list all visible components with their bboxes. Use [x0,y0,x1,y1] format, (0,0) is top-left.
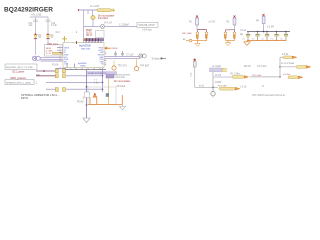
wire OTG [46,88,103,90]
connector JP1 current-limit box [85,87,123,105]
wire SYS bus [247,31,290,33]
capacitor C7 [121,51,134,57]
svg-text:BQ24292I_GPIO_CTL(7M): BQ24292I_GPIO_CTL(7M) [6,67,33,69]
svg-text:D- GND: D- GND [46,50,53,52]
wire C11 branch [35,17,37,34]
wire row A [280,66,300,68]
resistor R18 arrow out [296,66,311,69]
svg-text:21: 21 [105,64,107,66]
svg-text:thermistor: thermistor [98,17,108,20]
node pin numbers top of U1 [86,30,93,37]
svg-text:2: 2 [60,49,61,51]
wire row C [195,86,218,88]
wire usb vbus lines [57,48,63,53]
svg-text:L1 2.2uH: L1 2.2uH [90,6,100,8]
svg-text:Do not populate: Do not populate [114,80,131,83]
connector J2 battery [139,54,146,58]
capacitor C6 [114,51,117,57]
node port box GPIO [5,80,34,85]
svg-text:4.7uF: 4.7uF [51,25,57,27]
resistor R19 arrow out [288,76,303,79]
node pin numbers bottom of U1 [70,69,101,71]
wire SCL [36,70,55,72]
node TS net label [210,65,227,72]
svg-text:J4 1-2A: J4 1-2A [104,21,112,24]
wire PMID horizontal [84,26,138,28]
capacitor Cout 248 [241,32,250,41]
svg-text:C7 1uF: C7 1uF [126,54,134,56]
resistor R16 TS pullup [193,59,196,88]
node PGND net text [87,71,117,74]
svg-text:RGE R24: RGE R24 [81,47,91,50]
resistor R13 STAT pullup [189,16,198,30]
capacitor Cout 288 [279,32,288,41]
svg-text:REGN: REGN [112,48,118,50]
node jumper JP2 [106,75,130,79]
wire SDA [36,75,55,77]
capacitor C5 box [96,31,105,38]
svg-text:R6 0R: R6 0R [244,66,251,68]
wire GND vertical [86,70,88,118]
wire TS vertical [212,72,214,87]
svg-text:+ t: + t [94,79,97,82]
svg-text:10u: 10u [261,38,264,40]
svg-text:5V: 5V [51,37,54,39]
wire D2 to J1 [47,39,49,45]
wire INT [46,81,103,83]
svg-text:on tx w tssss: on tx w tssss [281,62,295,65]
svg-text:a 3.3R: a 3.3R [267,27,274,29]
capacitor C8 DNP branch [108,78,110,105]
svg-text:us chgflt: us chgflt [212,65,221,68]
svg-text:17: 17 [105,53,107,55]
resistor R17 [231,74,249,79]
svg-text:18: 18 [105,48,107,50]
capacitor Cout 258 [251,32,260,41]
wire BAT lines [104,57,140,59]
svg-text:a 3.3V: a 3.3V [209,22,216,24]
resistor network R7-R12 pullups [52,64,74,92]
svg-text:OTG: OTG [64,64,69,66]
svg-text:R.: R. [262,86,265,88]
svg-text:a 5.2k: a 5.2k [282,54,289,56]
svg-text:VB 17: VB 17 [86,35,93,37]
wire SW vertical [83,10,85,43]
svg-text:R 10k: R 10k [52,64,59,66]
svg-text:PGND: PGND [77,101,84,103]
op-amp U1 bq24292i main IC [63,43,104,68]
svg-text:3: 3 [60,51,61,53]
svg-text:INP IN: INP IN [21,97,28,100]
svg-text:chgflt: chgflt [190,72,193,77]
wire SDA right [66,75,103,77]
thermistor RT1 [91,10,95,27]
svg-text:ts 0.4uF: ts 0.4uF [283,73,291,76]
svg-text:20: 20 [105,60,107,62]
wire VBUS top rail [30,16,48,18]
svg-text:→ To Battery: → To Battery [149,57,163,60]
resistor R4 SYS feed [262,14,274,32]
inductor L1 [78,6,115,12]
svg-text:LED_RED: LED_RED [182,33,193,35]
ground GND1 [83,118,90,123]
svg-text:1-2A max: 1-2A max [142,29,153,32]
node pin numbers left [60,46,61,62]
svg-text:BQ24292IRGER: BQ24292IRGER [4,6,53,13]
node battery arrow [161,57,167,59]
svg-text:bq24292i: bq24292i [79,44,91,48]
svg-text:C 2200pF: C 2200pF [119,24,130,26]
capacitor C11 [29,20,39,27]
svg-text:TP4 BAT: TP4 BAT [140,64,150,67]
wire top pin stubs [85,38,105,41]
resistor R21 top jumper [280,54,297,59]
svg-text:SPRACM_GPIO_1.2(4M): SPRACM_GPIO_1.2(4M) [6,81,31,84]
svg-text:JUMP: JUMP [215,82,222,84]
svg-text:10u: 10u [242,38,245,40]
diode D1 TVS [34,33,42,39]
wire GPIO bus vertical [102,68,104,92]
svg-text:NTC 103AT thermistor plcmnt 2x: NTC 103AT thermistor plcmnt 2x [252,94,286,97]
connector J4 [100,21,112,28]
svg-text:10u: 10u [280,38,283,40]
wire PGND bottom rail [63,69,106,71]
LED D4 circuit [224,30,243,46]
wire D1 to connector [35,39,37,55]
capacitor C12 [46,20,58,27]
wire stub [87,10,89,14]
connector P1 plug symbol [32,56,40,60]
svg-text:10u: 10u [252,38,255,40]
svg-text:I2C1_power: I2C1_power [12,71,25,74]
resistor R20 arrow out [218,86,240,91]
svg-text:C9 0.1uF: C9 0.1uF [116,77,126,79]
svg-text:TS1 0.4uF: TS1 0.4uF [252,75,262,77]
svg-text:5V: 5V [39,37,42,39]
capacitor Cout 278 [270,32,279,41]
connector J1 USB input box [45,43,63,56]
svg-text:D+ ID: D+ ID [46,53,52,55]
wire SYS gnd rail [247,40,286,42]
wire TS row B [213,76,232,78]
node net label 5V0_USB [137,22,158,31]
svg-text:Do not populate: Do not populate [98,14,115,17]
svg-text:C13: C13 [56,32,61,34]
svg-text:C8 10uF: C8 10uF [117,86,126,88]
capacitor Cout 268 [260,32,269,41]
svg-text:x 0.1k: x 0.1k [240,87,247,89]
svg-text:5V0USB_DPDT: 5V0USB_DPDT [139,25,156,27]
capacitor C13 polarized [56,32,68,44]
ground GND2 [120,105,126,110]
svg-text:10u: 10u [271,38,274,40]
node port box I2C1 [5,64,37,69]
svg-text:C1 0.4uF: C1 0.4uF [257,66,267,68]
svg-text:bq24292i: bq24292i [78,62,87,65]
testpoint TP4 [134,59,149,70]
svg-text:C 1uF: C 1uF [240,30,247,32]
svg-text:+5V_USB: +5V_USB [31,15,42,17]
LED D3 circuit [182,30,208,47]
svg-text:ts 1k: ts 1k [199,85,205,88]
testpoint TP3 [112,60,128,70]
diode D2 TVS [46,33,54,39]
wire usb data lines [40,57,63,61]
wire C12 branch [47,17,49,34]
svg-text:PGND: PGND [80,66,86,68]
svg-text:6: 6 [60,60,61,62]
svg-text:1uF: 1uF [29,25,34,27]
ground GND4 circle [211,87,215,97]
svg-text:PGND SYSOFF PU: PGND SYSOFF PU [88,73,107,75]
wire row B cont [250,76,280,78]
node REGN arrow [104,47,118,50]
wire TS junction vertical [279,57,281,77]
svg-text:USB_input: USB_input [47,43,58,46]
ground GND3 [244,42,250,46]
svg-text:TP3 SYS: TP3 SYS [118,65,128,67]
resistor R14 PG pullup [227,16,236,30]
